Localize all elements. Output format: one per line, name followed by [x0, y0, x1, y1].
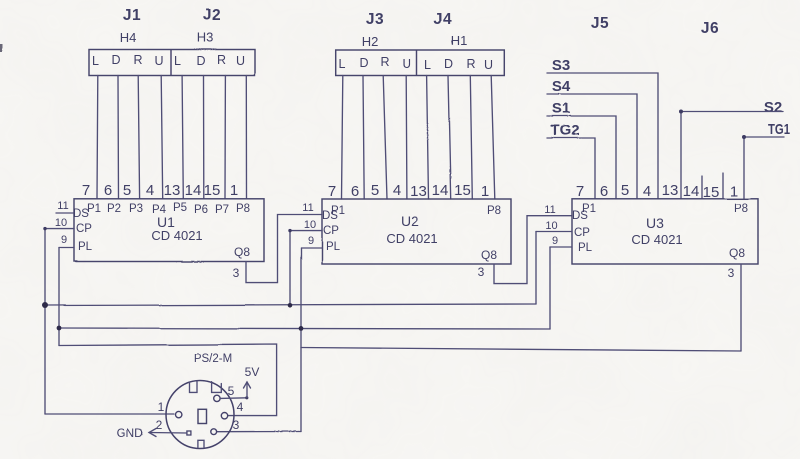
header H2 pin letters L D R U	[339, 55, 412, 71]
svg-text:U: U	[402, 57, 411, 71]
svg-text:U: U	[484, 58, 493, 72]
svg-text:P6: P6	[194, 204, 208, 216]
svg-text:D: D	[196, 54, 205, 68]
svg-text:J6: J6	[701, 20, 719, 37]
junction U1 PL latch bus	[57, 326, 62, 331]
svg-text:4: 4	[237, 400, 244, 414]
wires header H2/H1 to U2 pins	[342, 76, 495, 200]
wire PS/2 pin 5 to 5V	[220, 397, 247, 400]
svg-text:S2: S2	[764, 99, 782, 116]
U3 pin 14 stub	[701, 176, 703, 199]
latch bus wire	[59, 328, 550, 329]
svg-text:P8: P8	[487, 205, 501, 217]
svg-text:4: 4	[146, 182, 154, 199]
clock bus wire	[45, 304, 536, 306]
svg-text:P8: P8	[236, 203, 250, 215]
U2 PL drop wire	[300, 248, 302, 432]
svg-text:U3: U3	[646, 215, 664, 231]
svg-text:4: 4	[393, 182, 401, 199]
svg-text:5: 5	[228, 384, 235, 398]
svg-text:P5: P5	[173, 202, 187, 214]
svg-text:6: 6	[104, 182, 112, 199]
svg-text:S3: S3	[552, 57, 570, 74]
svg-text:10: 10	[545, 220, 557, 232]
svg-text:L: L	[92, 54, 99, 68]
junction S2 pin13	[679, 110, 683, 114]
svg-text:R: R	[133, 53, 142, 67]
IC U1 CD4021 box	[74, 199, 264, 262]
svg-text:5: 5	[621, 182, 629, 199]
svg-text:P1: P1	[87, 203, 101, 215]
paper edge mark	[0, 44, 3, 52]
svg-text:14: 14	[683, 183, 700, 200]
svg-text:10: 10	[55, 217, 67, 229]
U1 DS stub pin 11	[56, 212, 74, 214]
header H3 pin letters L D R U	[174, 53, 244, 68]
svg-text:9: 9	[307, 235, 313, 247]
svg-text:DS: DS	[572, 210, 588, 222]
svg-text:Q8: Q8	[729, 246, 745, 260]
PS/2 pin 2	[187, 431, 191, 435]
svg-text:3: 3	[233, 418, 240, 432]
svg-text:Q8: Q8	[481, 248, 497, 262]
svg-text:7: 7	[82, 182, 90, 199]
header box H2/H1	[336, 50, 505, 76]
svg-text:1: 1	[230, 182, 238, 199]
GND arrow	[149, 429, 187, 437]
U1 CP drop wire	[44, 229, 46, 414]
svg-text:15: 15	[204, 182, 221, 199]
svg-text:3: 3	[233, 266, 240, 280]
PS/2 key slot	[198, 409, 207, 423]
svg-text:PL: PL	[326, 241, 341, 253]
wire S1 to U3 pin 6	[547, 116, 616, 199]
svg-text:H4: H4	[120, 30, 137, 45]
clock wire to PS/2 pin 1	[45, 413, 174, 415]
U3 PL stub pin 9	[550, 246, 572, 248]
svg-text:1: 1	[481, 183, 489, 200]
svg-text:10: 10	[304, 219, 316, 231]
svg-text:R: R	[217, 53, 226, 67]
svg-text:14: 14	[185, 182, 202, 199]
svg-text:4: 4	[643, 183, 651, 200]
svg-text:9: 9	[552, 235, 558, 247]
svg-text:CP: CP	[76, 223, 92, 235]
clock bus riser to U3 CP	[535, 232, 537, 305]
header H1 pin letters L D R U	[425, 57, 493, 72]
svg-text:11: 11	[544, 204, 555, 216]
U2 PL stub pin 9	[301, 247, 322, 249]
svg-text:H3: H3	[197, 30, 214, 45]
IC U2 CD4021 box	[322, 199, 511, 264]
PS/2 shield notch right	[212, 382, 222, 393]
PS/2 mini-DIN shell	[166, 381, 234, 449]
svg-text:TG1: TG1	[768, 121, 790, 138]
wire S2 to U3 pin 13	[681, 112, 783, 199]
svg-text:13: 13	[164, 182, 181, 199]
junction U1 CP corner	[43, 227, 46, 230]
svg-text:7: 7	[328, 183, 336, 200]
svg-text:L: L	[339, 57, 346, 71]
svg-text:P3: P3	[129, 203, 143, 215]
svg-text:9: 9	[61, 234, 67, 246]
svg-text:15: 15	[454, 182, 471, 199]
wires header H4/H3 to U1 pins	[97, 76, 247, 199]
svg-text:P7: P7	[215, 204, 229, 216]
svg-text:H1: H1	[451, 33, 468, 48]
U3 CP stub pin 10	[536, 231, 572, 233]
U2 CP drop wire	[289, 231, 291, 306]
svg-text:CD 4021: CD 4021	[631, 232, 682, 247]
U1 top pin numbers 7 6 5 4 13 14 15 1	[82, 182, 238, 199]
svg-text:D: D	[359, 56, 368, 70]
svg-text:5: 5	[371, 182, 379, 199]
svg-text:13: 13	[411, 183, 428, 200]
svg-text:Q8: Q8	[234, 245, 250, 259]
junction U2 PL latch bus	[299, 326, 304, 331]
svg-text:2: 2	[156, 418, 163, 432]
svg-text:5V: 5V	[245, 365, 260, 379]
U1 Q8 pin3 wire to U2 DS	[246, 215, 322, 283]
U1 input labels row DS P1-P8	[73, 202, 250, 220]
svg-text:6: 6	[600, 183, 608, 200]
svg-text:R: R	[380, 55, 389, 69]
PS/2 pin 4	[221, 413, 227, 419]
svg-text:S4: S4	[552, 78, 571, 95]
svg-text:D: D	[111, 53, 120, 67]
svg-text:3: 3	[478, 265, 485, 279]
svg-text:11: 11	[302, 202, 313, 214]
U3 pin 15 stub	[722, 173, 724, 199]
svg-text:5: 5	[123, 182, 131, 199]
svg-text:J5: J5	[591, 15, 609, 32]
svg-text:CD 4021: CD 4021	[151, 228, 202, 243]
svg-text:S1: S1	[552, 100, 570, 117]
svg-text:CD 4021: CD 4021	[386, 231, 437, 246]
IC U3 CD4021 box	[572, 199, 758, 264]
svg-text:P1: P1	[331, 205, 345, 217]
svg-text:TG2: TG2	[550, 122, 579, 139]
svg-text:7: 7	[576, 183, 584, 200]
svg-text:P2: P2	[107, 203, 121, 215]
U2 Q8 pin3 wire to U3 DS	[494, 216, 572, 284]
PS/2 pin 5	[214, 395, 220, 401]
wire PS/2 pin 3	[217, 431, 301, 433]
svg-text:14: 14	[432, 182, 449, 199]
junction U2 CP clock bus	[288, 303, 293, 308]
junction U2 CP corner	[288, 229, 291, 232]
svg-text:1: 1	[730, 183, 738, 200]
svg-text:11: 11	[57, 200, 68, 212]
U1 PL stub pin 9	[59, 247, 74, 249]
wire S4 to U3 pin 5	[547, 94, 637, 199]
wire S3 to U3 pin 4	[547, 73, 658, 199]
wire TG2 to U3 pin 7	[547, 138, 595, 199]
wire TG1 to U3 pin 1	[744, 137, 784, 199]
data wire left segment	[59, 344, 277, 416]
svg-text:H2: H2	[362, 34, 379, 49]
data wire right segment	[301, 348, 741, 352]
PS/2 shield notch left	[190, 381, 198, 392]
svg-text:GND: GND	[117, 426, 144, 440]
U2 CP stub pin 10	[290, 230, 322, 232]
svg-text:13: 13	[662, 182, 679, 199]
svg-text:PL: PL	[578, 242, 593, 254]
header box H4/H3	[89, 50, 255, 76]
svg-text:CP: CP	[323, 225, 339, 237]
header H4 pin letters L D R U	[92, 53, 163, 68]
svg-text:L: L	[425, 58, 432, 72]
svg-text:J1: J1	[123, 7, 141, 24]
PS/2 bottom notch	[198, 440, 204, 447]
svg-text:D: D	[444, 57, 453, 71]
svg-text:6: 6	[351, 183, 359, 200]
junction 5V arrow base	[245, 396, 248, 399]
svg-text:PL: PL	[78, 241, 93, 253]
U3 top pin numbers 7 6 5 4 13 14 15 1	[576, 182, 738, 201]
svg-text:U: U	[235, 54, 244, 68]
svg-text:P8: P8	[734, 203, 748, 215]
svg-text:PS/2-M: PS/2-M	[194, 353, 232, 365]
PS/2 pin 3	[211, 429, 217, 435]
U1 PL drop wire	[58, 248, 60, 346]
svg-text:J4: J4	[434, 11, 452, 28]
U2 top pin numbers 7 6 5 4 13 14 15 1	[328, 182, 489, 200]
svg-text:R: R	[466, 57, 475, 71]
U3 Q8 pin3 wire down	[740, 264, 742, 351]
U1 CP stub pin 10	[45, 228, 74, 230]
svg-text:CP: CP	[574, 227, 590, 239]
latch bus riser to U3 PL	[549, 247, 551, 329]
PS/2 pin 1	[176, 411, 182, 417]
svg-text:J2: J2	[203, 7, 221, 24]
svg-text:1: 1	[158, 400, 165, 414]
svg-text:L: L	[174, 54, 181, 68]
svg-text:U2: U2	[401, 213, 419, 229]
svg-text:3: 3	[728, 266, 735, 280]
5V supply arrow	[244, 382, 251, 398]
svg-text:J3: J3	[366, 11, 384, 28]
svg-text:U: U	[154, 54, 163, 68]
junction clock bus left	[42, 303, 48, 309]
junction TG1 pin1	[742, 135, 746, 139]
